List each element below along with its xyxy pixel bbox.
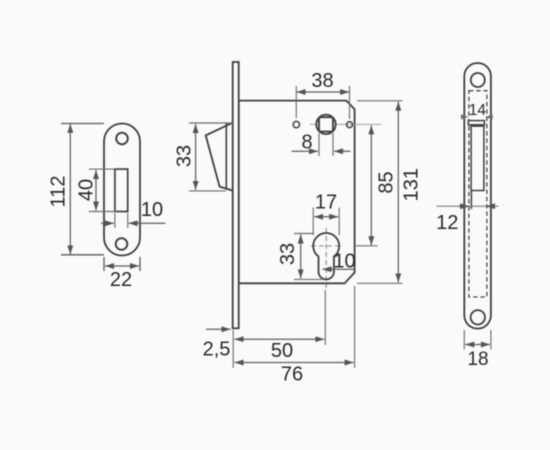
dimension 12 arrows [459, 205, 469, 207]
latch slot [471, 126, 484, 190]
svg-text:14: 14 [469, 102, 487, 119]
dimension 18 line [465, 344, 490, 346]
dimension 112 line [69, 124, 71, 255]
dimension 40 extension lines [89, 169, 116, 211]
svg-text:17: 17 [315, 192, 337, 214]
strike plate top screw hole [116, 133, 128, 145]
strike plate outline [104, 124, 140, 256]
hidden lock body dashed outline [469, 91, 487, 297]
cylinder horizontal centerline [311, 245, 342, 247]
dimension 12 line [437, 205, 499, 207]
svg-text:131: 131 [400, 168, 422, 201]
dimension 131 line [397, 102, 399, 282]
svg-text:12: 12 [436, 212, 458, 234]
svg-text:18: 18 [467, 349, 488, 370]
bottom extension lines [233, 286, 354, 368]
latch bolt bevel [206, 123, 233, 191]
dimension 10 cylinder arrow [323, 268, 356, 270]
dimension 18 extension lines [464, 330, 491, 350]
dimension 17 line [314, 216, 338, 218]
dimension 8 arrows [292, 150, 319, 152]
dimension 33 cylinder line [300, 235, 302, 279]
latch bolt edge [225, 123, 227, 189]
dimension 2,5 arrow [206, 328, 231, 330]
faceplate top screw hole [471, 73, 485, 87]
strike plate bottom screw hole [116, 238, 128, 250]
dimension 33 latch line [195, 124, 197, 190]
dimension 112 extension lines [61, 124, 104, 255]
svg-text:8: 8 [301, 132, 312, 154]
dimension 85 bottom extension line [356, 245, 378, 247]
svg-text:40: 40 [75, 179, 97, 201]
latch slot left edge extension [470, 190, 472, 209]
latch slot lip [468, 121, 484, 125]
dimension 33 latch extension lines [189, 123, 233, 191]
dimension 38 line [297, 91, 350, 93]
svg-text:85: 85 [376, 171, 398, 193]
dimension 76 line [235, 362, 354, 364]
dimension 22 extension lines [104, 257, 140, 271]
dimension 10 arrows (slot width) [101, 222, 114, 224]
strike plate latch slot [115, 169, 128, 211]
follower square hole 8mm [319, 117, 333, 131]
right pin hole [347, 122, 353, 128]
dimension 131 extension lines [357, 101, 403, 283]
dimension 8 extension lines [319, 133, 333, 156]
dimension 85 line [370, 125, 372, 245]
faceplate bottom screw hole [471, 310, 485, 324]
svg-text:50: 50 [271, 340, 293, 362]
svg-text:10: 10 [141, 199, 163, 221]
follower centerline [310, 123, 381, 125]
faceplate side view [233, 62, 239, 328]
lock body outline [239, 101, 355, 284]
left pin hole [293, 121, 299, 127]
dimension 17 extension lines [313, 208, 339, 236]
svg-text:112: 112 [47, 176, 69, 208]
svg-text:10: 10 [333, 251, 355, 273]
dimension 14 arrows [462, 116, 468, 118]
euro cylinder hole [313, 233, 339, 279]
cylinder vertical centerline [325, 228, 327, 288]
svg-text:38: 38 [311, 70, 333, 92]
dimension 33 cylinder extension lines [294, 234, 324, 280]
svg-text:33: 33 [277, 243, 299, 265]
follower circle [316, 115, 335, 134]
dimension 10 extension lines (slot) [115, 213, 128, 228]
svg-text:76: 76 [281, 364, 303, 386]
svg-text:22: 22 [110, 269, 132, 291]
svg-text:33: 33 [173, 145, 195, 167]
dimension 50 line [235, 338, 325, 340]
svg-text:2,5: 2,5 [203, 338, 231, 360]
dimension 38 extension lines [296, 86, 349, 119]
dimension 40 line [95, 170, 97, 210]
dimension 22 line [105, 265, 139, 267]
faceplate front outline [464, 63, 491, 329]
